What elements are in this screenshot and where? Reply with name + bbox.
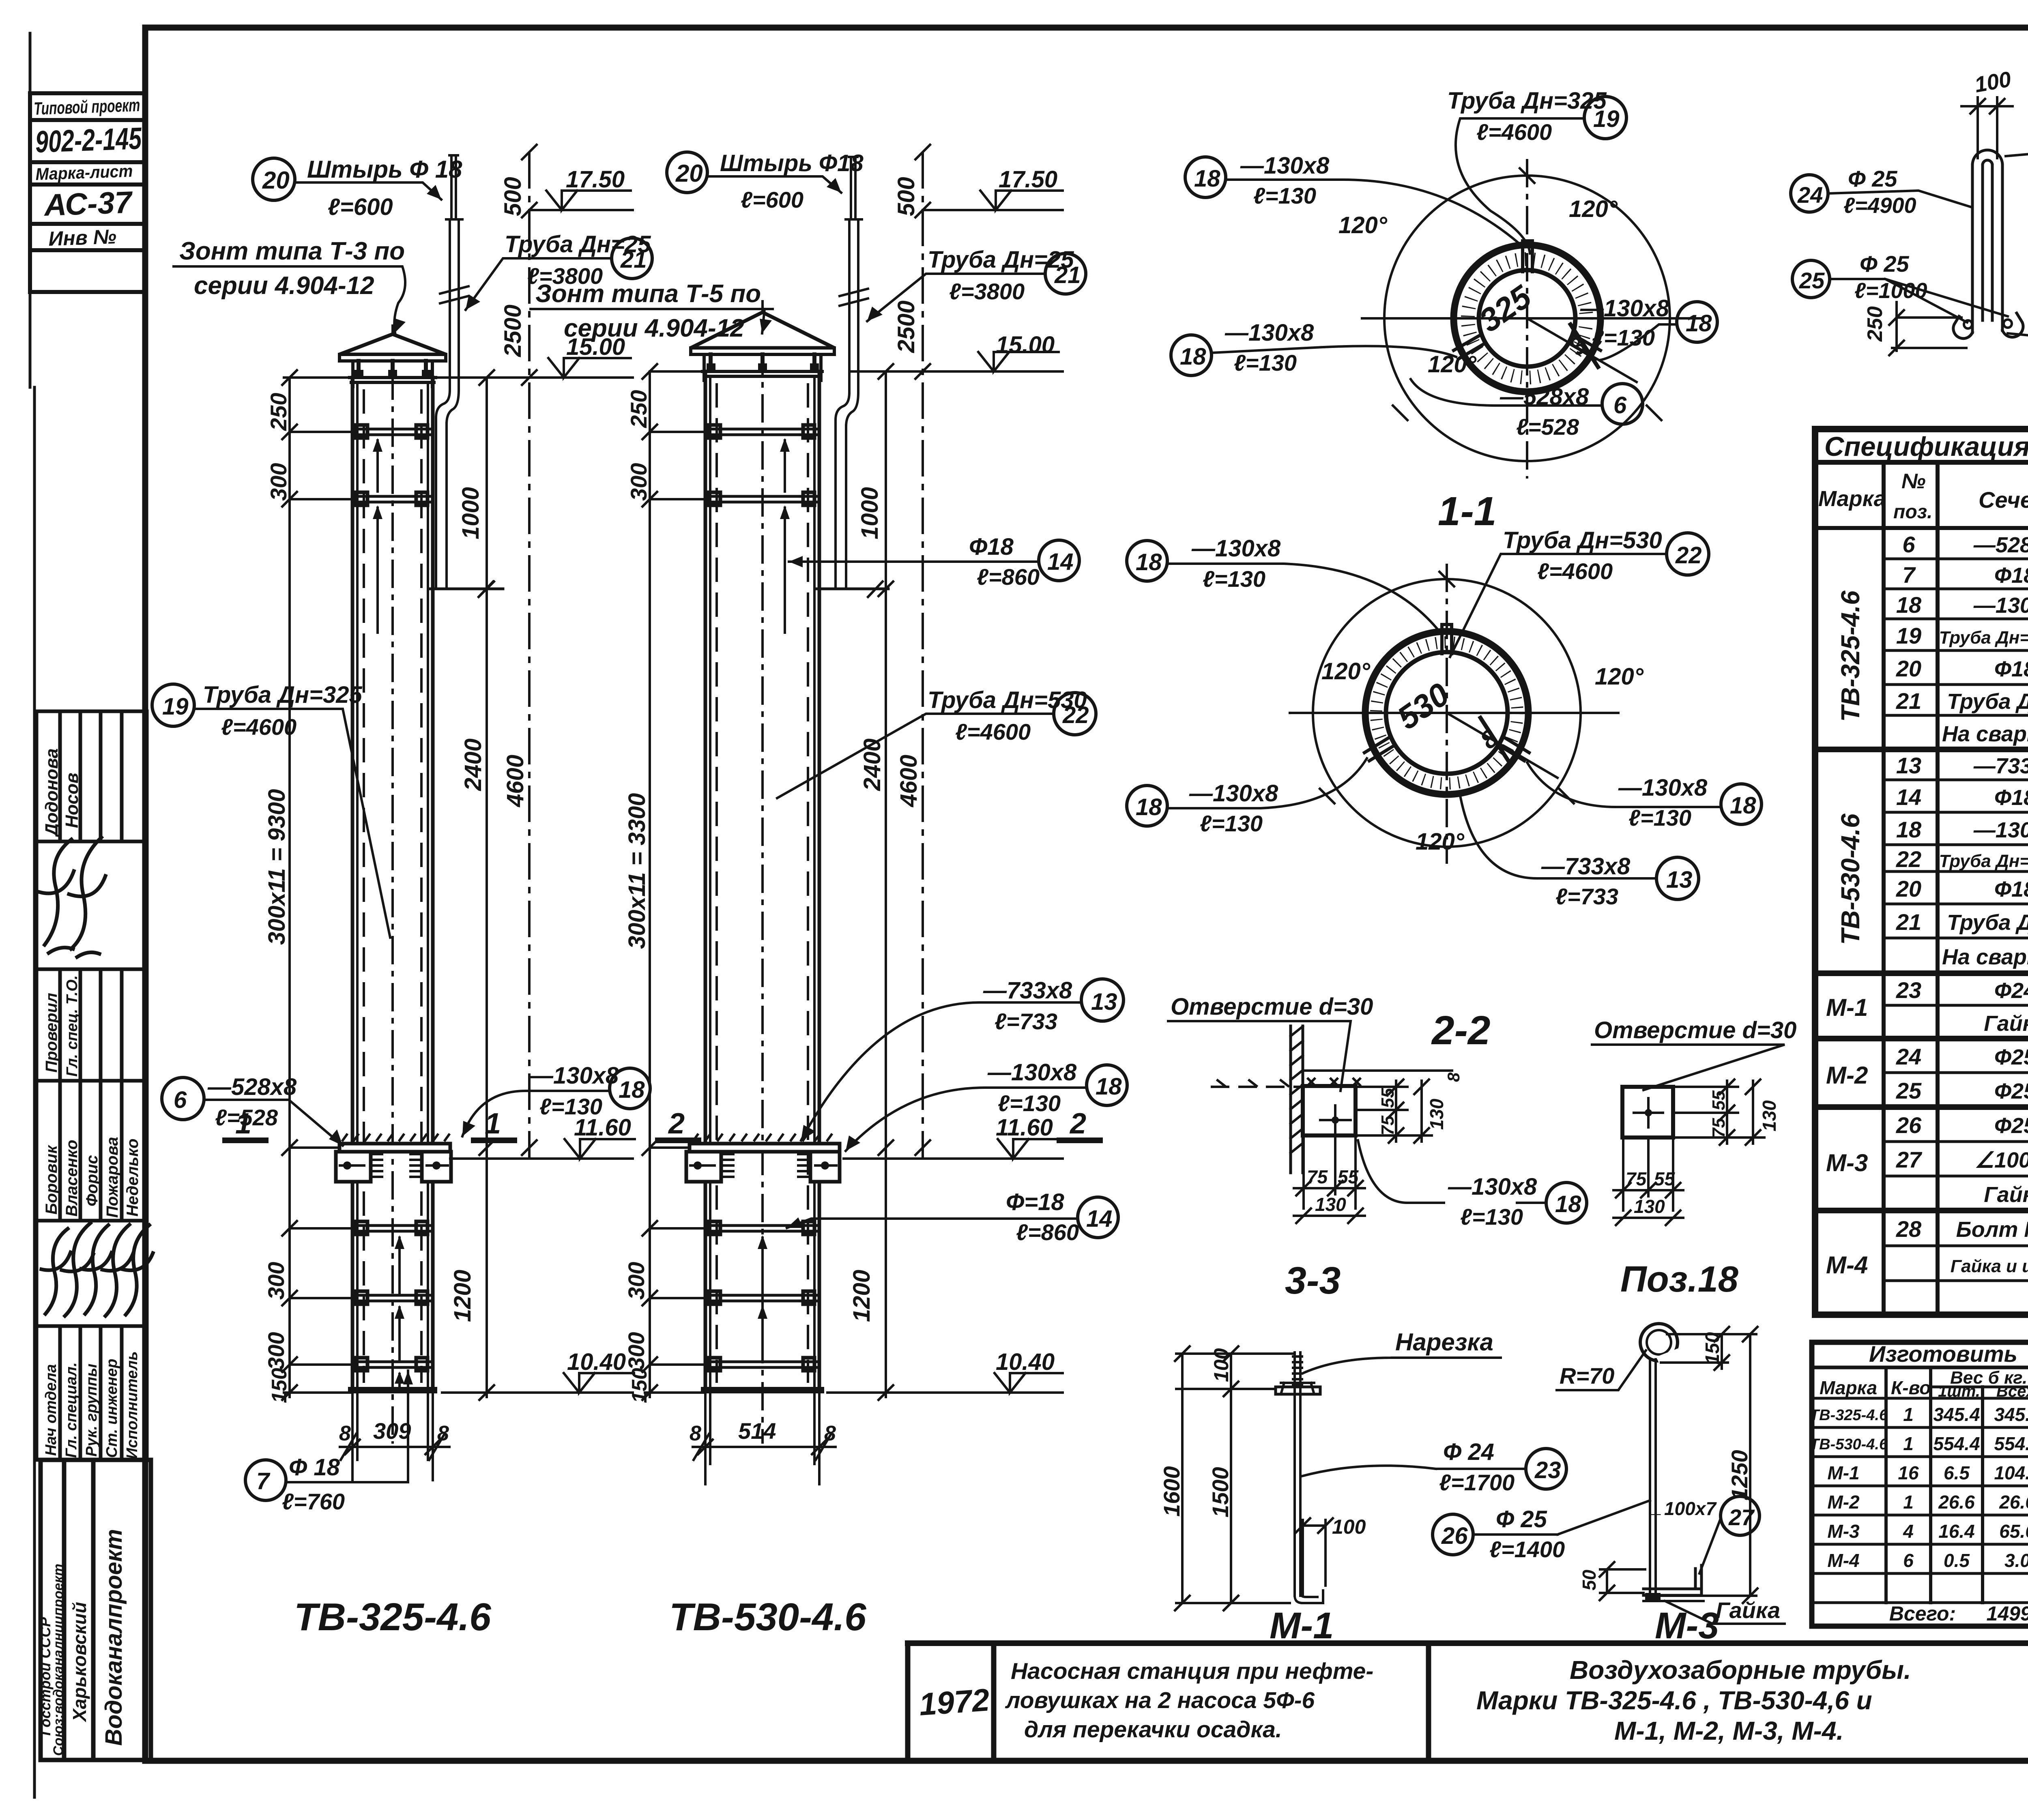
- label umbrella type T-3: [179, 237, 405, 300]
- svg-text:21: 21: [620, 247, 647, 273]
- M-1 thread hatch top: [1293, 1356, 1302, 1385]
- label (18) section 1-1 right: [1677, 302, 1717, 342]
- svg-text:24: 24: [1896, 1044, 1921, 1069]
- section 2-2 crosshair: [1290, 712, 1618, 714]
- svg-text:21: 21: [1054, 262, 1081, 288]
- svg-text:Зонт типа Т-5 по: Зонт типа Т-5 по: [535, 280, 761, 308]
- svg-text:Типовой проект: Типовой проект: [34, 95, 141, 119]
- label (18) -130x8 left pipe: [529, 1062, 619, 1119]
- spec table title row: [1815, 460, 2028, 465]
- svg-text:50: 50: [1579, 1569, 1600, 1590]
- svg-text:Боровик: Боровик: [43, 1145, 60, 1215]
- svg-text:75: 75: [1626, 1168, 1647, 1189]
- svg-text:21: 21: [1896, 688, 1921, 714]
- svg-text:Ф24: Ф24: [1994, 979, 2028, 1003]
- section 2-2 gusset plate lower left: [1364, 737, 1394, 761]
- svg-text:18: 18: [1096, 1073, 1122, 1100]
- steel pin poz.20 right: [849, 157, 857, 219]
- svg-text:554.4: 554.4: [1994, 1433, 2028, 1454]
- label (18) section 2-2 left: [1127, 786, 1167, 826]
- svg-text:8: 8: [1444, 1072, 1463, 1082]
- svg-text:ℓ=600: ℓ=600: [741, 187, 803, 212]
- M-2 dim 100 top: [1978, 97, 1997, 158]
- svg-text:28: 28: [1896, 1216, 1922, 1242]
- svg-text:25: 25: [1799, 268, 1825, 293]
- level 17.50 right: [923, 209, 1063, 211]
- svg-text:Гайка: Гайка: [1984, 1183, 2028, 1207]
- svg-text:Марки ТВ-325-4.6 , ТВ-530-4,6: Марки ТВ-325-4.6 , ТВ-530-4,6 и: [1476, 1686, 1872, 1715]
- svg-text:8: 8: [690, 1422, 701, 1445]
- svg-text:ℓ=860: ℓ=860: [977, 564, 1040, 590]
- flange plate -733x8 poz.13: [690, 1144, 840, 1152]
- svg-text:19: 19: [1593, 106, 1620, 132]
- svg-text:АС-37: АС-37: [43, 185, 134, 223]
- rungs below flange TB-530: [705, 1221, 819, 1371]
- svg-text:ТВ-325-4.6: ТВ-325-4.6: [1810, 1407, 1888, 1424]
- svg-text:Исполнитель: Исполнитель: [124, 1351, 141, 1459]
- svg-text:Форис: Форис: [83, 1155, 101, 1206]
- svg-text:309: 309: [373, 1418, 411, 1444]
- spec table outer frame: [1815, 429, 2028, 1315]
- svg-text:4600: 4600: [502, 755, 528, 807]
- svg-text:150: 150: [628, 1368, 651, 1403]
- label (18) section 1-1 bottom-left: [1171, 335, 1212, 376]
- svg-text:Труба Дн=25: Труба Дн=25: [1947, 910, 2028, 935]
- svg-text:18: 18: [1896, 592, 1922, 618]
- svg-text:6.5: 6.5: [1944, 1462, 1970, 1483]
- svg-text:—130x8: —130x8: [1189, 780, 1278, 807]
- svg-text:514: 514: [738, 1418, 776, 1444]
- svg-text:24: 24: [1797, 182, 1823, 208]
- M-3 label (26) F25: [1489, 1506, 1565, 1562]
- 3-3 label (18) -130x8: [1448, 1174, 1537, 1230]
- svg-text:2400: 2400: [859, 738, 885, 791]
- svg-text:4600: 4600: [896, 755, 922, 807]
- svg-text:1200: 1200: [849, 1270, 875, 1322]
- svg-text:300: 300: [263, 1332, 289, 1370]
- sheet margin edge line: [30, 33, 34, 1797]
- svg-text:Труба Дн=325δ=8: Труба Дн=325δ=8: [1939, 628, 2028, 648]
- svg-text:120°: 120°: [1595, 663, 1644, 690]
- M-1 label (23) F24: [1439, 1439, 1515, 1495]
- svg-text:М-4: М-4: [1827, 1550, 1859, 1571]
- 3-3 weld x-marks above plate: [1308, 1079, 1360, 1085]
- svg-text:ℓ=860: ℓ=860: [1016, 1219, 1079, 1245]
- section 1-1 crosshair: [1362, 317, 1701, 320]
- svg-text:ℓ=130: ℓ=130: [1234, 350, 1297, 376]
- svg-text:Спецификация металла на одну ш: Спецификация металла на одну штуку каждо…: [1824, 431, 2028, 462]
- spec table header grid: [1815, 526, 2028, 530]
- svg-text:М-4: М-4: [1826, 1251, 1868, 1279]
- svg-text:18: 18: [1555, 1191, 1581, 1217]
- svg-text:21: 21: [1896, 909, 1921, 935]
- pipe TB-530 top rim: [702, 371, 822, 376]
- svg-text:—130x8: —130x8: [1580, 295, 1669, 322]
- svg-text:13: 13: [1666, 867, 1693, 893]
- M-2 dim 250: [1892, 302, 1966, 351]
- svg-text:7: 7: [1902, 562, 1916, 588]
- svg-text:55: 55: [1654, 1168, 1676, 1189]
- svg-text:М-1, М-2, М-3, М-4.: М-1, М-2, М-3, М-4.: [1614, 1716, 1843, 1745]
- tube lower end tick: [429, 588, 503, 590]
- svg-text:22: 22: [1062, 702, 1089, 728]
- label (25) M-2 left: [1792, 260, 1830, 298]
- svg-text:ТВ-325-4.6: ТВ-325-4.6: [1836, 590, 1865, 722]
- svg-text:55: 55: [1709, 1090, 1729, 1110]
- pipe TB-325 top rim: [350, 378, 436, 382]
- M-3 dim 50 bottom left: [1600, 1569, 1645, 1593]
- sheet title cell: [1476, 1655, 1911, 1745]
- svg-text:—130x8: —130x8: [987, 1059, 1077, 1086]
- label (24) M-2 left: [1791, 175, 1828, 212]
- pipe TB-530 centerline: [761, 300, 764, 1444]
- svg-text:26.6: 26.6: [1938, 1492, 1975, 1513]
- svg-text:100: 100: [1332, 1515, 1366, 1538]
- svg-text:6: 6: [1613, 392, 1627, 419]
- svg-text:ℓ=130: ℓ=130: [1628, 805, 1691, 831]
- outer dim chain 500/2500/4600 x=1305: [528, 152, 531, 1160]
- svg-text:130: 130: [1634, 1196, 1665, 1217]
- svg-text:ТВ-530-4.6: ТВ-530-4.6: [1810, 1436, 1888, 1453]
- svg-text:14: 14: [1047, 549, 1074, 575]
- bottom width dims 8 309 8: [340, 1446, 449, 1448]
- label (14) F=18 lower: [1006, 1189, 1079, 1245]
- section 2-2 weld serration ring: [1376, 642, 1517, 783]
- svg-text:130: 130: [1426, 1099, 1447, 1130]
- section 1-1 pipe ring bold: [1454, 245, 1600, 392]
- svg-text:ℓ=4600: ℓ=4600: [1476, 119, 1552, 145]
- flange plate -528x8 poz.6: [339, 1144, 450, 1152]
- svg-text:4: 4: [1903, 1521, 1914, 1542]
- svg-text:120°: 120°: [1338, 212, 1388, 238]
- section 1-1 120 deg labels: [1338, 196, 1618, 378]
- svg-text:Рук. группы: Рук. группы: [83, 1364, 100, 1457]
- svg-text:М-1: М-1: [1827, 1462, 1859, 1483]
- M-2 hairpin left hook: [1953, 316, 1972, 339]
- svg-text:М-3: М-3: [1826, 1149, 1868, 1176]
- svg-text:Ф=18: Ф=18: [1006, 1189, 1064, 1215]
- 3-3 bottom dims 75 55: [1304, 1139, 1356, 1208]
- svg-text:Инв №: Инв №: [48, 225, 116, 250]
- svg-text:—733x8: —733x8: [983, 977, 1072, 1004]
- level mark 17.50: [529, 209, 633, 211]
- M-3 rod: [1650, 1359, 1656, 1596]
- title block outline: [908, 1640, 2028, 1646]
- label (6) plate -528x8: [162, 1077, 204, 1120]
- section 1-1 centre dim text: [1473, 278, 1592, 361]
- pipe TB-530 inner dashed: [717, 383, 808, 1383]
- organisation block (bottom of margin): [41, 1460, 151, 1760]
- svg-text:Труба Дн=25: Труба Дн=25: [1947, 689, 2028, 714]
- svg-text:∟100x7: ∟100x7: [1646, 1498, 1717, 1519]
- svg-text:На сварку 2%: На сварку 2%: [1942, 945, 2028, 969]
- svg-text:Власенко: Власенко: [63, 1140, 81, 1217]
- svg-text:2400: 2400: [460, 738, 486, 791]
- svg-text:К-во: К-во: [1891, 1377, 1931, 1398]
- svg-text:18: 18: [1686, 310, 1712, 337]
- svg-text:14: 14: [1896, 784, 1921, 810]
- svg-text:500: 500: [500, 177, 526, 216]
- svg-text:1шт.: 1шт.: [1938, 1382, 1980, 1400]
- outer dim chain TB-530 x=2275: [922, 152, 924, 1160]
- svg-text:2-2: 2-2: [1431, 1008, 1491, 1053]
- izgotovit table frame: [1812, 1342, 2028, 1626]
- svg-text:Ф25: Ф25: [1994, 1114, 2028, 1138]
- svg-text:Труба Дн=325: Труба Дн=325: [1447, 88, 1607, 114]
- svg-text:250: 250: [626, 390, 651, 428]
- section 2-2 gusset plate top: [1442, 625, 1452, 654]
- 3-3 wall with hatching: [1291, 1026, 1303, 1173]
- svg-text:Ф18: Ф18: [1994, 877, 2028, 901]
- svg-text:300x11 = 9300: 300x11 = 9300: [264, 789, 290, 945]
- interior arrows to rungs: [376, 440, 379, 491]
- tube Dn25 poz.21 upper run right: [846, 219, 862, 393]
- svg-text:23: 23: [1896, 977, 1921, 1003]
- section 1-1 outer circle: [1384, 176, 1670, 461]
- svg-text:Гл. специал.: Гл. специал.: [63, 1362, 80, 1458]
- label (14) F18 l=860 upper: [969, 534, 1040, 590]
- svg-text:Ф 25: Ф 25: [1860, 251, 1909, 277]
- svg-text:26.6: 26.6: [1999, 1492, 2028, 1513]
- svg-text:—528x8: —528x8: [207, 1074, 297, 1100]
- svg-text:1250: 1250: [1727, 1450, 1752, 1500]
- svg-text:ℓ=528: ℓ=528: [1516, 414, 1579, 440]
- svg-text:554.4: 554.4: [1933, 1433, 1980, 1454]
- svg-text:—130x8: —130x8: [529, 1062, 619, 1089]
- svg-text:16.4: 16.4: [1938, 1521, 1975, 1542]
- signature scribbles: [40, 837, 153, 1316]
- svg-text:Ф 18: Ф 18: [289, 1454, 340, 1481]
- pipe TB-530 bottom end: [704, 1387, 821, 1393]
- svg-text:ℓ=130: ℓ=130: [1200, 811, 1263, 836]
- svg-text:Сечение: Сечение: [1979, 487, 2028, 513]
- svg-text:Додонова: Додонова: [42, 748, 62, 838]
- svg-text:18: 18: [1730, 792, 1756, 819]
- pipe TB-325 bottom extension lines: [352, 1393, 433, 1480]
- svg-text:ℓ=528: ℓ=528: [215, 1105, 278, 1130]
- label (19) section 1-1: [1447, 88, 1607, 145]
- svg-text:Ф25: Ф25: [1994, 1079, 2028, 1103]
- svg-text:Воздухозаборные трубы.: Воздухозаборные трубы.: [1570, 1655, 1911, 1685]
- svg-text:—130x8: —130x8: [1240, 152, 1330, 179]
- tube break marks: [440, 286, 468, 303]
- svg-text:ℓ=733: ℓ=733: [1555, 884, 1618, 909]
- rung anchors F18 top pair: [352, 425, 433, 505]
- svg-text:75: 75: [1709, 1118, 1729, 1138]
- svg-text:ТВ-325-4.6: ТВ-325-4.6: [294, 1595, 491, 1639]
- svg-text:130: 130: [1759, 1100, 1780, 1131]
- svg-text:20: 20: [1896, 876, 1921, 901]
- 3-3 right dims 55 75 130 8: [1303, 1071, 1452, 1135]
- svg-text:ℓ=1700: ℓ=1700: [1439, 1470, 1515, 1495]
- svg-text:ℓ=130: ℓ=130: [1253, 183, 1316, 208]
- signature table (rotated rows): [37, 711, 147, 1460]
- svg-text:ловушках на 2 насоса 5Ф-6: ловушках на 2 насоса 5Ф-6: [1005, 1687, 1315, 1713]
- umbrella cap T-3: [339, 334, 446, 354]
- svg-text:1: 1: [1903, 1404, 1914, 1425]
- svg-text:Зонт типа Т-3 по: Зонт типа Т-3 по: [179, 237, 405, 265]
- svg-text:1: 1: [1903, 1492, 1914, 1513]
- svg-text:—733x8: —733x8: [1541, 853, 1631, 880]
- left dimension chain x=714: [288, 379, 291, 1397]
- svg-text:Отверстие d=30: Отверстие d=30: [1171, 994, 1373, 1020]
- svg-text:10.40: 10.40: [567, 1349, 626, 1375]
- svg-text:Ст. инженер: Ст. инженер: [103, 1359, 120, 1458]
- umbrella cap T-5: [691, 312, 834, 348]
- svg-text:Отверстие d=30: Отверстие d=30: [1594, 1017, 1796, 1043]
- M-2 hairpin right hook: [2002, 313, 2023, 337]
- marka column group labels: [1826, 590, 2028, 1279]
- svg-text:Ф25: Ф25: [1994, 1045, 2028, 1069]
- svg-text:ℓ=4600: ℓ=4600: [955, 719, 1031, 745]
- svg-text:18: 18: [619, 1077, 645, 1103]
- svg-text:2: 2: [668, 1107, 685, 1140]
- svg-text:для перекачки осадка.: для перекачки осадка.: [1024, 1717, 1282, 1743]
- svg-text:14: 14: [1086, 1206, 1113, 1232]
- svg-text:22: 22: [1896, 846, 1921, 872]
- svg-text:150: 150: [268, 1368, 291, 1403]
- svg-text:Неделько: Неделько: [124, 1139, 142, 1217]
- svg-text:8: 8: [437, 1422, 449, 1445]
- label (6) section 1-1: [1602, 384, 1643, 424]
- svg-text:8: 8: [339, 1422, 351, 1445]
- svg-text:300: 300: [623, 1262, 649, 1300]
- svg-text:130: 130: [1315, 1194, 1346, 1215]
- svg-text:ℓ=600: ℓ=600: [328, 194, 393, 220]
- svg-text:Пожарова: Пожарова: [103, 1137, 121, 1218]
- svg-text:13: 13: [1091, 989, 1117, 1015]
- M-1 dim 100 at foot: [1303, 1520, 1326, 1596]
- svg-text:Нарезка: Нарезка: [1395, 1329, 1493, 1356]
- level 15.00 right: [852, 370, 1063, 373]
- svg-text:120°: 120°: [1321, 658, 1371, 685]
- svg-text:М-1: М-1: [1270, 1605, 1334, 1646]
- svg-text:Ф18: Ф18: [1994, 657, 2028, 681]
- svg-text:3.0: 3.0: [2004, 1550, 2028, 1571]
- section 2-2 pipe ring bold: [1365, 631, 1528, 794]
- poz18 right dims 55 75 130: [1673, 1087, 1764, 1137]
- svg-text:Всех: Всех: [1996, 1382, 2028, 1400]
- svg-text:100: 100: [1210, 1348, 1233, 1382]
- section 1-1 radius line with thickness mark: [1527, 318, 1637, 382]
- svg-text:Марка: Марка: [1818, 487, 1886, 511]
- svg-text:18: 18: [1136, 549, 1162, 575]
- svg-text:Марка: Марка: [1820, 1377, 1877, 1398]
- svg-text:120°: 120°: [1416, 828, 1465, 855]
- M-1 left dim chains 100 1500 1600: [1176, 1354, 1293, 1603]
- spec table row lines: [1884, 558, 2028, 560]
- svg-text:—130x8: —130x8: [1973, 818, 2028, 842]
- svg-text:6: 6: [1902, 532, 1915, 557]
- svg-text:902-2-145: 902-2-145: [35, 121, 143, 159]
- M-2 dim 2070: [2006, 149, 2028, 341]
- section 2-2 outer circle: [1313, 579, 1581, 847]
- svg-text:Гайка: Гайка: [1984, 1011, 2028, 1036]
- svg-text:ℓ=733: ℓ=733: [995, 1009, 1057, 1034]
- svg-text:0.5: 0.5: [1944, 1550, 1970, 1571]
- tube Dn25 poz.21 upper run: [446, 219, 462, 390]
- svg-text:2500: 2500: [500, 305, 526, 357]
- tube Dn25 lower run along pipe: [436, 418, 447, 589]
- svg-text:ℓ=130: ℓ=130: [539, 1094, 602, 1119]
- svg-text:1500: 1500: [1207, 1467, 1233, 1517]
- svg-text:—528x8: —528x8: [1973, 533, 2028, 557]
- label (21) right: [928, 247, 1074, 304]
- svg-text:20: 20: [675, 160, 703, 187]
- svg-text:серии 4.904-12: серии 4.904-12: [194, 272, 374, 300]
- svg-text:300: 300: [626, 463, 651, 501]
- svg-text:20: 20: [262, 167, 290, 194]
- svg-text:Всего:: Всего:: [1889, 1602, 1956, 1625]
- svg-text:ℓ=130: ℓ=130: [998, 1090, 1061, 1116]
- svg-text:Болт М-24: Болт М-24: [1956, 1217, 2028, 1242]
- svg-text:65.6: 65.6: [1999, 1521, 2028, 1542]
- left dim chain TB-530 x=1602: [649, 373, 651, 1397]
- svg-text:345.4: 345.4: [1933, 1404, 1980, 1425]
- svg-text:26: 26: [1896, 1112, 1922, 1138]
- section 1-1 weld serration ring: [1468, 259, 1586, 378]
- svg-text:300: 300: [266, 463, 291, 501]
- svg-text:18: 18: [1136, 794, 1162, 820]
- level 11.60 + section marks 2: [844, 1157, 1063, 1160]
- svg-text:2: 2: [1069, 1107, 1086, 1140]
- label umbrella type T-5: [535, 280, 761, 342]
- tube S-bend to pipe wall: [436, 390, 459, 424]
- M-1 washer and nut: [1276, 1387, 1320, 1394]
- svg-text:1: 1: [485, 1107, 501, 1140]
- svg-text:150: 150: [1702, 1332, 1723, 1365]
- svg-text:300x11 = 3300: 300x11 = 3300: [624, 793, 650, 949]
- label (22) tube Dn530: [928, 687, 1087, 745]
- svg-text:1200: 1200: [449, 1270, 476, 1322]
- label (18) section 1-1 top-left: [1185, 157, 1226, 197]
- label (20) pin Shtyr F18 l=600: [253, 158, 295, 200]
- svg-text:19: 19: [1896, 623, 1921, 648]
- section 2-2 radius line with thickness mark: [1447, 713, 1558, 778]
- svg-text:∠100x7: ∠100x7: [1975, 1148, 2028, 1172]
- svg-text:М-2: М-2: [1827, 1492, 1860, 1513]
- svg-text:—130x8: —130x8: [1448, 1174, 1537, 1200]
- M-3 angle bracket: [1643, 1565, 1701, 1595]
- level mark 15.00: [284, 376, 633, 379]
- svg-text:Ф 25: Ф 25: [1848, 166, 1897, 191]
- svg-text:55: 55: [1378, 1088, 1398, 1108]
- svg-text:поз.: поз.: [1893, 501, 1932, 523]
- svg-text:—130x8: —130x8: [1191, 535, 1281, 562]
- M-3 top hook R=70: [1640, 1324, 1678, 1361]
- M-2 hairpin rod poz.24: [1972, 165, 2002, 333]
- svg-text:Штырь Ф 18: Штырь Ф 18: [307, 156, 462, 183]
- svg-text:ℓ=4900: ℓ=4900: [1843, 193, 1916, 218]
- svg-text:27: 27: [1896, 1147, 1923, 1172]
- svg-text:Ф18: Ф18: [1994, 786, 2028, 810]
- svg-text:М-1: М-1: [1826, 994, 1868, 1021]
- svg-text:№: №: [1901, 470, 1926, 493]
- svg-text:ℓ=1400: ℓ=1400: [1489, 1537, 1565, 1562]
- svg-text:26: 26: [1441, 1523, 1468, 1549]
- svg-text:Труба Дн=325: Труба Дн=325: [203, 682, 362, 708]
- svg-text:13: 13: [1896, 753, 1921, 778]
- svg-text:23: 23: [1534, 1457, 1561, 1483]
- svg-text:ℓ=130: ℓ=130: [1592, 325, 1655, 350]
- pipe TB-325 bottom end: [351, 1387, 434, 1393]
- svg-text:Труба Дн=530: Труба Дн=530: [1503, 527, 1662, 554]
- svg-text:Водоканалпроект: Водоканалпроект: [101, 1529, 127, 1746]
- svg-text:3-3: 3-3: [1285, 1259, 1341, 1302]
- label (13) section 2-2: [1656, 857, 1699, 899]
- rungs top pair TB-530: [705, 425, 819, 505]
- svg-text:Ф18: Ф18: [969, 534, 1014, 560]
